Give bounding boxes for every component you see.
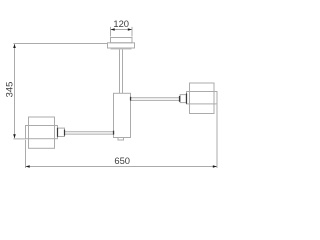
svg-text:120: 120 <box>113 18 129 29</box>
svg-text:650: 650 <box>114 155 130 166</box>
svg-text:345: 345 <box>3 82 14 98</box>
